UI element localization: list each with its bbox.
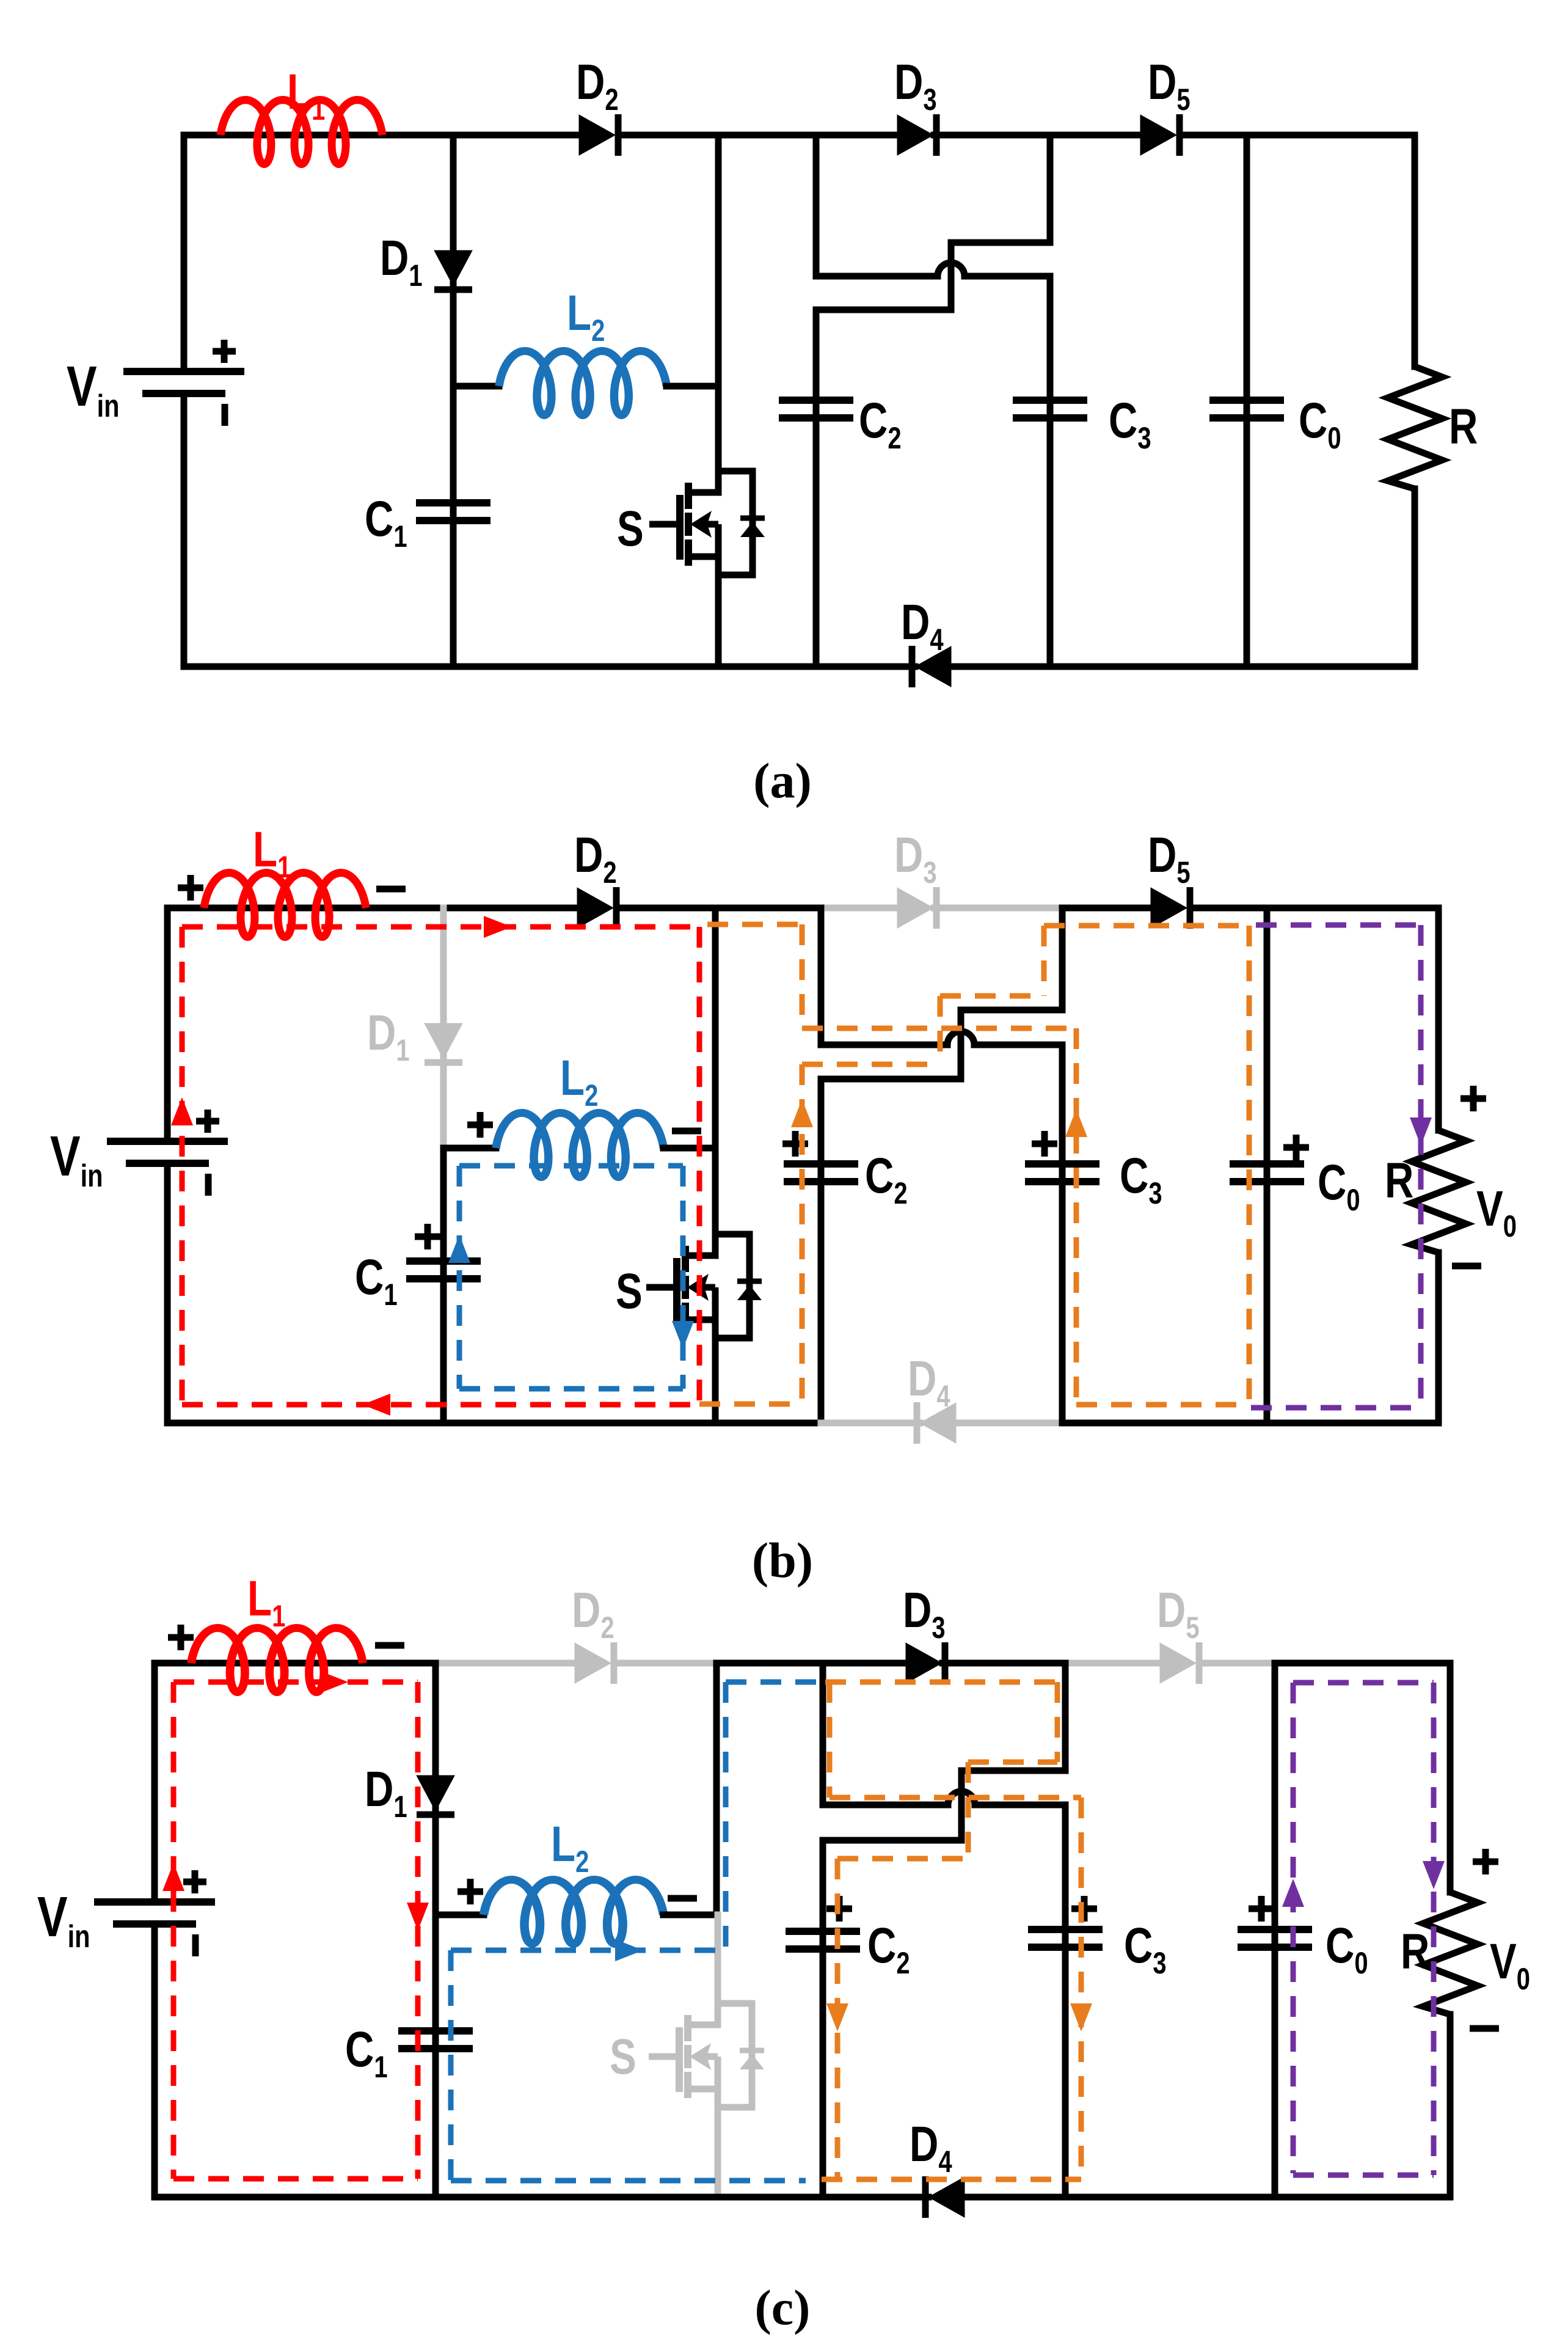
capacitor C0 [1209, 400, 1284, 418]
current loop: orange jog horizontal [968, 1760, 1057, 1765]
wire: C1 branch from L2 node to bottom rail [450, 386, 457, 667]
wire: jog vertical crossing under hop [958, 1010, 965, 1079]
wire: top rail D3 node to D5 [1062, 905, 1154, 912]
wire: switch branch vertical to MOSFET drain [712, 908, 719, 1256]
wire: jog vertical crossing under hop [948, 243, 955, 310]
wire: L2 right lead [663, 1145, 715, 1152]
label C1 [355, 1249, 398, 1312]
diode D3 (inactive) [897, 887, 936, 929]
svg-text:S: S [610, 2028, 636, 2085]
svg-text:D5: D5 [1148, 827, 1191, 890]
diode D2 (inactive) [575, 1642, 614, 1684]
label C2 [867, 1917, 910, 1980]
current loop: purple output bottom [1293, 2173, 1434, 2178]
wire: top rail D5 cathode to output corner [1180, 132, 1415, 139]
arrow orange down C3 [1070, 2003, 1092, 2032]
current loop: blue loop right [680, 1166, 686, 1389]
capacitor C0 [1230, 1164, 1304, 1182]
current loop: orange right down from top [1055, 1682, 1060, 1762]
current loop: orange top above D3 [825, 1680, 1057, 1685]
wire: D1 branch vertical [432, 1663, 439, 1915]
diode D4 (pointing left) [912, 646, 951, 687]
wire: lower jog horizontal to C2 branch [816, 307, 951, 313]
current loop: red input loop left [171, 1682, 177, 2179]
svg-text:(b): (b) [752, 1532, 813, 1588]
label S [616, 1263, 643, 1319]
polarity - of L2 [668, 1895, 697, 1902]
wire: bottom rail left of D4 [155, 2194, 928, 2201]
wire: top rail D5 to output corner [1190, 905, 1439, 912]
svg-text:C2: C2 [865, 1147, 908, 1210]
svg-text:V0: V0 [1490, 1933, 1530, 1996]
label D5 [1157, 1582, 1200, 1645]
polarity + of output [1473, 1849, 1498, 1874]
label D3 [894, 54, 937, 117]
wire: bottom rail right of D4 [965, 2194, 1450, 2201]
wire: top rail input corner to D1 node [155, 1660, 436, 1667]
wire: right vertical above resistor [1435, 908, 1442, 1130]
diode D5 [1151, 887, 1190, 929]
wire: upper jog horizontal [961, 1007, 1062, 1014]
polarity + of L2 [467, 1112, 493, 1138]
wire: top rail D2 cathode to D3 anode [618, 132, 900, 139]
wire (inactive): top rail across D2 [436, 1660, 578, 1667]
svg-text:D4: D4 [908, 1350, 950, 1413]
label D4 [901, 594, 944, 657]
wire: switch branch vertical from top rail to MOSFET drain [715, 135, 722, 492]
svg-text:C3: C3 [1124, 1917, 1167, 1980]
arrow red up [162, 1863, 184, 1891]
svg-text:C3: C3 [1109, 392, 1151, 455]
wire: right vertical below resistor [1435, 1253, 1442, 1423]
diode D5 (inactive) [1160, 1642, 1199, 1684]
transistor S (inactive MOSFET) [649, 2003, 764, 2107]
wire: C2 branch vertical [818, 1079, 825, 1423]
svg-text:D4: D4 [910, 2116, 952, 2179]
polarity - of output [1452, 1263, 1481, 1270]
current loop: orange horizontal above hop [802, 1026, 1076, 1031]
diode D5 [1140, 114, 1180, 156]
label C1 [345, 2021, 388, 2084]
arrow purple down [1423, 1861, 1445, 1889]
svg-text:Vin: Vin [37, 1885, 90, 1954]
wire: L2 left lead [453, 383, 499, 390]
resistor R [1412, 1130, 1466, 1253]
current loop: blue loop left [448, 1950, 454, 2181]
current loop: orange segment along top rail [707, 922, 802, 927]
wire: C1 branch to bottom rail [432, 1915, 439, 2197]
current loop: orange jog horizontal 2 [837, 1856, 968, 1862]
label Vin [67, 354, 120, 423]
wire: node after D3 down [1062, 1663, 1069, 1771]
current loop: orange up along C0 [1247, 926, 1252, 1405]
svg-text:L2: L2 [567, 285, 605, 348]
svg-text:D2: D2 [576, 54, 619, 117]
svg-text:S: S [617, 500, 644, 557]
capacitor C0 [1238, 1929, 1312, 1947]
label D5 [1148, 827, 1191, 890]
figure (c) mode 2 current loops [37, 1570, 1530, 2335]
arrow orange down C2 [826, 2003, 848, 2032]
current loop: orange top along D5 [1044, 923, 1249, 929]
wire: left vertical input branch lower [181, 393, 188, 667]
transistor S (MOSFET with body diode) [646, 1234, 762, 1338]
wire: switch branch vertical from top rail down to L2 node [713, 1663, 720, 1915]
wire: left vertical input branch upper [151, 1663, 158, 1902]
wire (inactive): top rail across D3 [821, 905, 900, 912]
label L1 [247, 1570, 285, 1633]
svg-text:L2: L2 [551, 1816, 589, 1879]
wire: lower jog horizontal to C2 branch [821, 1076, 961, 1083]
svg-text:L1: L1 [247, 1570, 285, 1633]
label R [1449, 398, 1478, 455]
svg-text:L1: L1 [287, 64, 325, 126]
current loop: orange jog vertical [966, 1762, 971, 1859]
label C3 [1109, 392, 1151, 455]
wire: L2 right lead [663, 1912, 717, 1918]
svg-text:Vin: Vin [67, 354, 120, 423]
svg-text:D5: D5 [1148, 54, 1191, 117]
wire: MOSFET source to bottom rail [712, 1320, 719, 1423]
wire: node after D3 down [1047, 135, 1054, 243]
polarity + of C1 [415, 1224, 440, 1249]
polarity + of C2 [782, 1131, 808, 1157]
capacitor C1 [406, 1261, 481, 1279]
polarity + of C0 [1283, 1135, 1309, 1160]
label C2 [859, 392, 902, 455]
battery Vin [94, 1870, 215, 1956]
current loop: orange bottom to switch [699, 1402, 802, 1407]
wire: upper jog horizontal [951, 240, 1050, 246]
current loop: red input loop top [182, 924, 699, 930]
arrow blue down [672, 1321, 694, 1349]
current loop: purple output left [1291, 1683, 1296, 2173]
svg-text:C2: C2 [859, 392, 902, 455]
current loop: purple output bottom [1251, 1405, 1421, 1411]
inductor L2 (blue coil) [499, 351, 666, 415]
svg-text:S: S [616, 1263, 643, 1319]
current loop: red input loop right [415, 1682, 421, 2179]
wire: top rail D2 node to D3 [717, 1660, 909, 1667]
label D5 [1148, 54, 1191, 117]
resistor R [1388, 367, 1442, 489]
svg-text:C0: C0 [1299, 392, 1341, 455]
inductor L1 (red coil) [204, 873, 366, 937]
svg-text:C0: C0 [1326, 1917, 1368, 1980]
current loop: blue loop left [457, 1166, 462, 1389]
inductor L1 (red coil) [221, 100, 382, 164]
label C0 [1299, 392, 1341, 455]
svg-text:D5: D5 [1157, 1582, 1200, 1645]
battery Vin [107, 1110, 228, 1196]
wire: bottom rail right of D4 [951, 664, 1415, 670]
label C2 [865, 1147, 908, 1210]
wire (inactive): bottom rail D4 to C3 node [956, 1420, 1062, 1427]
current loop: orange middle horizontal [830, 1795, 1081, 1801]
label L2 [551, 1816, 589, 1879]
label D3 [894, 827, 937, 890]
inductor L1 (red coil) [191, 1628, 363, 1692]
arrow orange up C2 [791, 1099, 813, 1127]
label L2 [560, 1050, 598, 1113]
label D4 [910, 2116, 952, 2179]
wire: C3 branch vertical [1062, 1805, 1069, 2197]
polarity + of L2 [458, 1879, 483, 1904]
label D3 [903, 1582, 946, 1645]
current loop: blue loop bottom [459, 1386, 683, 1392]
wire: C0 branch vertical [1244, 135, 1250, 667]
capacitor C3 [1013, 400, 1087, 418]
transistor S (MOSFET with body diode) [649, 471, 765, 575]
current loop: orange left down [827, 1682, 833, 1798]
diode D4 (inactive, pointing left) [917, 1402, 956, 1444]
wire: top rail D3 cathode to D5 anode [934, 132, 1143, 139]
current loop: orange down along C2 [800, 1064, 805, 1404]
label C3 [1120, 1147, 1162, 1210]
wire: C2 branch vertical [820, 1840, 826, 2197]
svg-text:D3: D3 [894, 54, 937, 117]
svg-text:D1: D1 [367, 1004, 410, 1067]
label V0 [1476, 1180, 1517, 1243]
arrow blue up [448, 1235, 470, 1263]
capacitor C2 [779, 400, 853, 418]
wire: top rail C0 node to output corner [1275, 1660, 1450, 1667]
label V0 [1490, 1933, 1530, 1996]
label D1 [380, 230, 423, 293]
diode D3 [906, 1642, 945, 1684]
svg-text:L1: L1 [253, 821, 291, 884]
wire: MOSFET source to bottom rail [715, 557, 722, 667]
svg-text:L2: L2 [560, 1050, 598, 1113]
arrow purple up [1282, 1879, 1304, 1907]
current loop: red input loop right [697, 927, 702, 1405]
wire: C0 branch vertical [1272, 1663, 1278, 2197]
label L1 [287, 64, 325, 126]
current loop: purple output top [1256, 923, 1421, 928]
svg-text:Vin: Vin [50, 1124, 103, 1193]
svg-text:C0: C0 [1318, 1154, 1360, 1217]
current loop: blue up right of switch [723, 1682, 729, 1950]
current loop: purple output top [1293, 1680, 1434, 1686]
wire: lower jog horizontal to C2 branch [823, 1837, 961, 1844]
capacitor C3 [1028, 1929, 1103, 1947]
wire (inactive): bottom rail C2 node to D4 [821, 1420, 920, 1427]
current loop: orange down along C3 [1079, 1798, 1084, 2179]
arrow blue right [615, 1939, 643, 1961]
svg-text:C1: C1 [345, 2021, 388, 2084]
label D4 [908, 1350, 950, 1413]
capacitor C2 [786, 1931, 860, 1949]
svg-text:R: R [1401, 1923, 1429, 1980]
svg-text:C1: C1 [355, 1249, 398, 1312]
diode D3 [897, 114, 936, 156]
current loop: orange down along C2 [835, 1859, 841, 2179]
wire: C1 branch from L2 node to bottom rail [440, 1149, 447, 1423]
label D2 [572, 1582, 614, 1645]
diode D1 (inactive, pointing down) [425, 1023, 462, 1062]
figure (b) mode 1 current loops [50, 821, 1517, 1588]
arrow red right [484, 916, 512, 938]
polarity + of C2 [826, 1896, 852, 1922]
wire: C3 branch vertical [1059, 1045, 1066, 1423]
wire: right vertical above resistor [1412, 135, 1418, 367]
arrow red left [362, 1394, 390, 1416]
wire: L2 left lead [436, 1912, 484, 1918]
svg-text:D2: D2 [572, 1582, 614, 1645]
polarity + of L1 [168, 1625, 194, 1650]
label L2 [567, 285, 605, 348]
figure (a) boost converter schematic [67, 54, 1478, 808]
polarity - of L1 [375, 1642, 404, 1649]
wire: left vertical input branch lower [164, 1163, 171, 1423]
resistor R [1423, 1892, 1478, 2014]
label C0 [1318, 1154, 1360, 1217]
label C0 [1326, 1917, 1368, 1980]
label R [1401, 1923, 1429, 1980]
label D2 [574, 827, 617, 890]
svg-text:(a): (a) [753, 753, 812, 808]
wire: jog vertical crossing under hop [958, 1771, 965, 1840]
wire: top rail from input corner to D2 [184, 132, 582, 139]
svg-text:D3: D3 [894, 827, 937, 890]
current loop: orange jog down 2 [938, 996, 943, 1064]
wire: D1/C1 branch vertical from top rail to L2 node [450, 135, 457, 386]
diode D1 (pointing down) [417, 1776, 454, 1815]
svg-text:R: R [1385, 1152, 1413, 1209]
arrow purple down [1410, 1117, 1432, 1146]
wire: node between D2-D3 down to crossover [818, 908, 825, 1045]
current loop: orange down to crossover [800, 924, 805, 1028]
current loop: blue along top rail [726, 1680, 828, 1685]
polarity + of output [1460, 1086, 1486, 1111]
svg-text:D4: D4 [901, 594, 944, 657]
wire (inactive): MOSFET source to bottom rail [715, 2089, 721, 2197]
current loop: blue C1-L2 loop top [459, 1163, 683, 1169]
current loop: blue loop bottom [451, 2178, 806, 2184]
wire: top rail D3 to its node [943, 1660, 1068, 1667]
arrow red right [320, 1671, 348, 1693]
wire: C3 branch vertical [1047, 276, 1054, 667]
wire (inactive): D1 branch vertical [440, 908, 447, 1149]
current loop: orange bottom C3 to C0 [1076, 1402, 1249, 1408]
wire: left vertical input branch upper [164, 908, 171, 1141]
label L1 [253, 821, 291, 884]
label Vin [50, 1124, 103, 1193]
svg-text:D2: D2 [574, 827, 617, 890]
wire: L2 left lead [443, 1145, 496, 1152]
arrow red down [407, 1903, 429, 1931]
current loop: orange jog horizontal 2 [802, 1062, 940, 1067]
wire: top rail D2 to D3 node [616, 905, 821, 912]
current loop: orange jog down [1041, 926, 1047, 996]
wire: C2 branch vertical [813, 310, 820, 667]
inductor L2 (blue coil) [484, 1880, 663, 1944]
label S [617, 500, 644, 557]
wire: L2 right lead [666, 383, 718, 390]
current loop: red input loop bottom [182, 1402, 699, 1408]
polarity + of C3 [1032, 1131, 1057, 1157]
svg-text:D1: D1 [365, 1761, 407, 1824]
wire (inactive): L2 node to MOSFET drain [715, 1915, 721, 2025]
current loop: red input loop bottom [173, 2176, 418, 2182]
current loop: purple output right [1431, 1683, 1437, 2175]
label S [610, 2028, 636, 2085]
wire: right vertical below resistor [1412, 489, 1418, 667]
wire: node before D3 down to crossover [820, 1663, 826, 1805]
polarity - of output [1470, 2025, 1499, 2032]
battery Vin [123, 340, 244, 426]
polarity + of C3 [1071, 1896, 1097, 1922]
wire: crossover horizontal with hop over to C3 branch [821, 1031, 1062, 1045]
wire: top rail input corner to D2 [167, 905, 580, 912]
label Vin [37, 1885, 90, 1954]
svg-text:D1: D1 [380, 230, 423, 293]
label C3 [1124, 1917, 1167, 1980]
polarity + of C0 [1249, 1896, 1274, 1922]
wire: C0 branch vertical [1264, 908, 1271, 1423]
current loop: purple output right [1418, 925, 1424, 1408]
current loop: orange bottom over D4 [822, 2177, 1081, 2182]
current loop: red input loop left [180, 927, 185, 1405]
diode D4 (pointing left) [925, 2176, 965, 2218]
label C1 [365, 491, 407, 554]
capacitor C3 [1025, 1164, 1099, 1182]
wire: bottom rail left of C2 node [167, 1420, 821, 1427]
wire: right vertical below resistor [1447, 2014, 1454, 2197]
arrow orange up C3 [1065, 1109, 1087, 1137]
polarity - of L2 [672, 1128, 701, 1135]
label D1 [367, 1004, 410, 1067]
svg-text:(c): (c) [754, 2280, 810, 2335]
wire: bottom rail C3 node to output corner [1062, 1420, 1439, 1427]
inductor L2 (blue coil) [496, 1113, 663, 1177]
svg-text:C3: C3 [1120, 1147, 1162, 1210]
diode D1 (pointing down) [434, 251, 472, 290]
label R [1385, 1152, 1413, 1209]
wire: node between D2-D3 down to crossover [813, 135, 820, 276]
current loop: red input loop top [173, 1680, 418, 1685]
polarity + of L1 [178, 875, 203, 901]
svg-text:D3: D3 [903, 1582, 946, 1645]
wire: bottom rail left of D4 [184, 664, 915, 670]
wire (inactive): top rail across D5 [1065, 1660, 1163, 1667]
label D1 [365, 1761, 407, 1824]
wire: right vertical above resistor [1447, 1663, 1454, 1892]
svg-text:R: R [1449, 398, 1478, 455]
wire: crossover horizontal with hop over to C3 branch [823, 1791, 1065, 1805]
capacitor C1 [398, 2031, 473, 2049]
arrow red up [171, 1097, 193, 1125]
wire: node after D3 down [1059, 908, 1066, 1010]
current loop: blue loop under L2 [451, 1948, 726, 1953]
wire: upper jog horizontal [961, 1768, 1065, 1774]
diode D2 [577, 887, 616, 929]
capacitor C2 [784, 1164, 858, 1182]
svg-text:C2: C2 [867, 1917, 910, 1980]
wire: crossover horizontal with hop over to C3 branch [816, 263, 1050, 276]
diode D2 [579, 114, 618, 156]
wire: left vertical input branch lower [151, 1924, 158, 2197]
wire: left vertical input branch upper [181, 135, 188, 371]
svg-text:V0: V0 [1476, 1180, 1517, 1243]
capacitor C1 [416, 503, 490, 521]
current loop: orange jog horizontal [940, 993, 1044, 999]
current loop: orange down along C3 [1074, 1028, 1079, 1405]
polarity - of L1 [376, 886, 406, 893]
svg-text:C1: C1 [365, 491, 407, 554]
label D2 [576, 54, 619, 117]
